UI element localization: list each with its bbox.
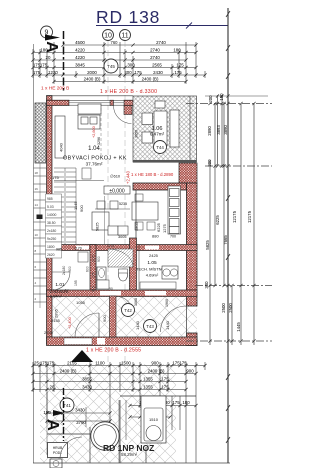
partition vertical x133 [130,238,137,296]
entry triangle [71,350,93,362]
svg-text:A: A [44,419,61,431]
terrace bottom edge [133,160,197,163]
svg-text:900: 900 [79,205,84,212]
T45 bubble [104,59,118,73]
elevation mark [104,186,130,194]
svg-text:14000: 14000 [47,213,57,217]
svg-text:11: 11 [121,33,128,40]
lattice floor lower plan [46,296,197,337]
svg-text:5825: 5825 [205,240,210,250]
svg-text:600: 600 [86,266,90,272]
kitchen counter right [168,186,181,234]
plan interior main outline verticals [96,190,187,333]
svg-text:2500: 2500 [228,303,233,313]
svg-text:3845: 3845 [75,63,85,68]
svg-text:3430: 3430 [75,408,85,413]
bottom dimension chain [33,366,205,422]
living room furniture [55,104,101,158]
svg-text:180: 180 [40,48,48,53]
tech appliance [162,266,178,279]
door arc terrace [114,106,132,124]
svg-text:3890: 3890 [223,125,228,135]
svg-text:5.03: 5.03 [47,205,54,209]
svg-text:5805: 5805 [134,221,139,231]
svg-text:900: 900 [151,361,159,366]
svg-text:175: 175 [52,175,59,180]
svg-text:3296: 3296 [97,137,101,145]
svg-text:1220: 1220 [48,70,58,75]
right dash-dot datum lines [186,104,272,342]
top wall [47,100,70,105]
svg-text:37.76m²: 37.76m² [86,162,103,167]
svg-text:2705: 2705 [44,330,54,335]
svg-text:1510: 1510 [149,417,159,422]
svg-text:+2,600: +2,600 [92,126,96,138]
svg-text:1.05: 1.05 [147,260,157,266]
svg-text:9x250: 9x250 [47,237,56,241]
bottom wall of plan [47,337,198,346]
svg-text:300: 300 [204,281,209,289]
terrace furniture [142,101,179,147]
svg-text:1500: 1500 [121,361,131,366]
svg-text:1055: 1055 [76,300,86,305]
top dimension chain lines [33,45,205,82]
svg-text:900: 900 [68,266,72,272]
neighbour wall hatched [35,103,46,163]
svg-text:2425: 2425 [149,253,159,258]
svg-text:3005: 3005 [118,235,126,239]
svg-text:1275: 1275 [162,223,167,233]
svg-text:760: 760 [111,40,119,45]
svg-text:985: 985 [56,248,62,252]
bottom border line [33,462,230,464]
hall door arc [52,272,70,290]
svg-text:HRUB: HRUB [53,446,63,450]
break marks on main line [226,11,230,443]
svg-text:1800: 1800 [47,245,55,249]
grid bubble 11 [120,30,131,41]
door arc hall 1.01 [75,313,99,337]
wall under terrace [133,183,187,190]
svg-text:20: 20 [50,385,55,390]
T44 bubble [154,141,167,154]
svg-text:2500: 2500 [221,303,226,313]
neighbour stair black box [37,215,43,220]
right dim texts [204,93,252,332]
svg-text:195: 195 [74,280,78,286]
svg-text:6225: 6225 [156,222,161,232]
svg-text:20: 20 [46,55,51,60]
svg-text:T45: T45 [107,64,115,69]
section marker A top [43,35,60,54]
svg-text:12175: 12175 [247,210,252,223]
svg-text:T42: T42 [124,308,132,313]
svg-text:6.47m²: 6.47m² [150,132,165,137]
svg-text:1 x HE 200 B - d.2555: 1 x HE 200 B - d.2555 [86,348,141,354]
terrace right edge [189,96,191,162]
svg-text:2740: 2740 [150,48,160,53]
T42 bubble [122,304,135,317]
svg-text:2x180: 2x180 [47,229,56,233]
svg-text:1440: 1440 [135,320,140,330]
svg-text:2000: 2000 [87,70,97,75]
svg-text:2x180: 2x180 [62,266,66,275]
svg-text:∅610: ∅610 [110,174,121,179]
right wall [187,183,198,306]
svg-text:OBÝVACÍ POKOJ + KK: OBÝVACÍ POKOJ + KK [63,155,127,162]
left edge vertical line [33,44,35,463]
section line A-A bottom [63,388,65,441]
svg-text:2400 (B): 2400 (B) [84,77,101,82]
dining table [132,202,158,220]
facade outer line [47,95,134,97]
svg-text:1100: 1100 [95,361,105,366]
svg-text:18: 18 [35,171,39,175]
svg-text:2740: 2740 [156,40,166,45]
svg-text:1145: 1145 [73,201,78,210]
lattice floor bottom drawing [40,364,176,463]
dashed line kitchen [100,103,102,158]
T41 bubble [60,398,74,412]
svg-text:2890: 2890 [207,126,212,136]
lower drawing shower enclosure [141,396,166,443]
svg-text:T44: T44 [156,145,164,150]
svg-text:1.01: 1.01 [55,282,65,288]
svg-text:2400 (B): 2400 (B) [148,369,165,374]
svg-text:4220: 4220 [75,55,85,60]
right wall upper corner [179,163,197,183]
wall 1.01/1.02 vertical [110,296,117,337]
svg-text:1 x HE 200 B: 1 x HE 200 B [41,86,69,92]
svg-text:4220: 4220 [75,48,85,53]
grid bubble 10 [103,30,114,41]
svg-text:2740: 2740 [150,55,160,60]
svg-text:1960: 1960 [165,299,169,307]
svg-text:4.69m²: 4.69m² [146,273,159,278]
door arc room T42 [117,297,133,313]
svg-text:2155: 2155 [67,361,77,366]
svg-text:180: 180 [219,93,224,101]
svg-text:3050: 3050 [135,130,139,138]
svg-text:700: 700 [170,235,176,239]
svg-text:2400 (B): 2400 (B) [60,369,77,374]
svg-text:25: 25 [34,361,39,366]
neighbour stair column [34,168,47,302]
svg-text:16: 16 [35,187,39,191]
svg-text:+2,440: +2,440 [126,170,131,184]
terrace 1.06 hatch [133,96,197,162]
section line A-A top [63,31,65,93]
section marker A bottom [44,410,65,431]
grid bubble 9 [41,26,53,38]
svg-text:2565: 2565 [152,63,162,68]
svg-text:1355: 1355 [143,385,153,390]
svg-text:1355: 1355 [143,377,153,382]
svg-text:+2,400: +2,400 [68,317,72,329]
top dim tick verticals [33,42,205,84]
svg-text:6225: 6225 [215,215,220,225]
svg-text:2170: 2170 [92,254,96,262]
svg-text:4500: 4500 [75,40,85,45]
lower drawing door arc [60,437,82,459]
window in top wall [69,101,110,106]
svg-text:7665: 7665 [223,235,228,245]
grid line 10 dashed [107,41,109,463]
svg-text:RD 138: RD 138 [96,7,160,27]
svg-text:1440: 1440 [165,320,170,330]
svg-text:4040: 4040 [59,142,64,152]
svg-text:1.04: 1.04 [88,146,100,152]
svg-text:900: 900 [186,369,194,374]
kitchen island [97,201,105,209]
left wall [47,96,53,346]
svg-text:2430: 2430 [153,70,163,75]
svg-text:900: 900 [102,315,107,322]
small dims interior [59,142,168,258]
svg-text:175: 175 [92,272,96,278]
svg-text:900: 900 [97,256,101,262]
svg-text:175: 175 [161,385,169,390]
partition wall horizontal y245 [54,245,197,251]
svg-text:175: 175 [176,63,184,68]
svg-text:±0,000: ±0,000 [109,188,124,194]
right wall door arc [161,306,187,332]
svg-text:200: 200 [207,159,212,167]
svg-text:T43: T43 [146,324,154,329]
svg-text:2620: 2620 [47,253,55,257]
stair tread labels [46,194,62,258]
svg-text:2895: 2895 [54,308,59,318]
svg-text:38.50: 38.50 [47,221,56,225]
svg-text:2400 (B): 2400 (B) [142,77,159,82]
svg-text:3790: 3790 [76,420,86,425]
svg-text:200: 200 [208,95,213,103]
svg-text:985: 985 [47,197,53,201]
svg-text:3893: 3893 [216,125,221,135]
svg-text:1068: 1068 [134,298,138,306]
svg-text:175: 175 [174,70,182,75]
grid line 11 dashed [124,41,126,463]
svg-text:175: 175 [161,377,169,382]
svg-text:1170: 1170 [74,247,82,251]
svg-text:10: 10 [104,33,112,40]
svg-text:915: 915 [92,286,96,292]
svg-text:1170: 1170 [107,244,114,248]
main stair treads [54,168,76,245]
svg-text:5825: 5825 [96,223,100,231]
svg-text:14: 14 [35,203,39,207]
svg-text:1 x HE 180 B - d.2890: 1 x HE 180 B - d.2890 [131,172,174,177]
partition vertical x90 [90,245,96,297]
svg-text:90: 90 [109,287,113,291]
lower drawing wall lines [47,396,196,463]
svg-text:1445: 1445 [236,322,241,332]
svg-text:58.29m²: 58.29m² [121,452,138,457]
lower drawing: spiral stair circle [91,422,119,450]
svg-text:T41: T41 [63,403,71,408]
bathroom [108,249,133,267]
T43 bubble [144,320,157,333]
svg-text:880: 880 [152,234,159,239]
right dim secondary lines [210,95,254,345]
svg-text:5235: 5235 [119,202,127,206]
svg-text:10: 10 [35,233,39,237]
svg-text:180: 180 [182,400,190,405]
svg-text:1 x HE 200 B - d.3300: 1 x HE 200 B - d.3300 [100,89,157,95]
top dim texts [33,40,184,82]
svg-text:12175: 12175 [232,210,237,223]
svg-text:2155: 2155 [51,318,61,323]
right dim column main line [227,8,229,463]
wall y290 [47,290,198,297]
hrub podl box [48,443,68,458]
svg-text:9.64m²: 9.64m² [50,294,63,299]
